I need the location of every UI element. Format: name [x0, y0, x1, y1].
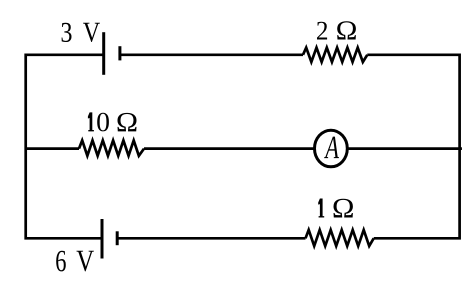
label: 10 ohm — [88, 112, 137, 131]
battery B1 (3 V): short plate — [118, 46, 121, 60]
label: 6 V — [56, 251, 94, 272]
resistor R1 (2 ohm): zigzag — [303, 48, 367, 62]
wire: right side of loop (top-right and bottom-right corners) — [367, 55, 459, 239]
resistor R2 (10 ohm): zigzag — [79, 140, 144, 155]
wire: middle branch, resistor R2 to ammeter A1 — [144, 147, 315, 150]
ammeter A1: letter A — [324, 137, 339, 158]
label: 2 ohm — [317, 21, 356, 39]
wire: bottom branch, battery B2 to resistor R3 — [117, 237, 305, 240]
wire: top branch, battery B1 to resistor R1 — [120, 53, 303, 56]
battery B2 (6 V): short plate — [116, 231, 119, 245]
wire: middle branch, left rail to resistor R2 — [26, 147, 79, 150]
battery B1 (3 V): long plate — [102, 32, 105, 75]
resistor R3 (1 ohm): zigzag — [306, 230, 374, 246]
wire: middle branch, ammeter A1 to right rail (with overhang at junction) — [347, 147, 462, 150]
label: 3 V — [62, 23, 100, 42]
label: 1 ohm — [318, 199, 353, 218]
battery B2 (6 V): long plate — [101, 219, 104, 259]
ammeter A1: circle — [315, 130, 348, 167]
wire: left side of loop (top-left and bottom-left corners) — [26, 55, 104, 239]
